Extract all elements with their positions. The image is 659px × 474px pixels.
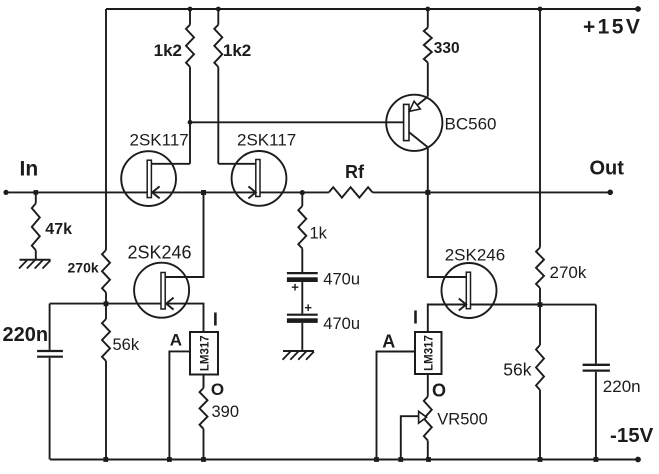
label 270k right [550,263,587,282]
wire -15V bottom rail [50,459,638,461]
node U2 adjust rail [374,457,379,462]
wire VR500 wiper [401,411,427,459]
wire 220n right top link [540,304,596,306]
node Q1 drain-base junction [188,120,193,125]
svg-text:390: 390 [212,403,240,421]
svg-text:47k: 47k [45,221,72,238]
label 1k [310,225,328,243]
svg-text:A: A [170,331,182,350]
svg-text:2SK246: 2SK246 [445,245,506,264]
wire Q4 gate [106,303,161,305]
svg-text:330: 330 [434,40,460,57]
resistor 1k2 left [186,9,194,164]
transistor Q1 2SK117 left [121,151,176,206]
svg-text:1k2: 1k2 [223,41,251,60]
label 1k2 left [154,41,182,60]
label 330 [434,40,460,57]
svg-text:Out: Out [590,158,625,180]
wire Q4 drain [165,193,203,278]
label 56k left [113,336,140,354]
wire BC560 emitter up [427,63,429,97]
wire U1 output [203,375,205,389]
transistor Q4 2SK246 left [134,263,189,318]
svg-text:O: O [211,380,224,399]
svg-text:2SK246: 2SK246 [128,243,192,263]
wire Q1 drain [151,163,190,165]
wire BC560 base [190,121,404,123]
wire +15V top rail [106,8,638,10]
wire input signal [6,191,302,193]
capacitor 220n right [583,305,610,460]
label 2SK246 left [128,243,192,263]
wire right bias trunk vertical [539,9,541,460]
svg-text:BC560: BC560 [445,114,497,133]
label VR500 [437,410,487,428]
label BC560 [445,114,497,133]
svg-text:I: I [413,307,418,327]
wire Q2 drain [218,163,256,165]
node top rail end +15V [635,6,641,12]
capacitor 470u upper [287,273,318,282]
wire between 470u caps [301,282,303,314]
svg-text:+15V: +15V [583,16,642,39]
svg-text:LM317: LM317 [199,335,211,371]
wire left bias trunk vertical [105,9,107,460]
wire BC560 collector down [427,147,429,192]
node rail junction 330 [425,7,430,12]
resistor 47k [32,192,40,259]
svg-text:2SK117: 2SK117 [237,130,296,149]
svg-text:+: + [291,280,299,295]
svg-text:A: A [382,331,395,351]
svg-text:+: + [304,300,312,315]
node rail junction 1k2 right [216,7,221,12]
transistor Q3 BC560 [386,95,442,151]
wire Q5 drain [428,192,467,277]
label 390 [212,403,240,421]
node 220n right rail [594,457,599,462]
wire U2 adjust [377,352,416,460]
wire U2 output [427,374,429,397]
svg-text:220n: 220n [603,377,641,396]
node VR500 rail [426,457,431,462]
label Out [590,158,625,180]
node 56k left rail [103,457,108,462]
transistor Q5 2SK246 right [442,263,497,318]
resistor 1k2 right [214,9,222,164]
label -15V [610,424,654,447]
node VR500 wiper rail [398,457,403,462]
resistor 1k [298,193,306,273]
svg-text:1k: 1k [310,225,328,243]
wire 470u to ground [301,323,303,351]
label 220n right [603,377,641,396]
node rail junction right trunk [538,7,543,12]
wire output signal [373,191,611,193]
potentiometer VR500 [424,397,432,460]
label I pin right [413,307,418,327]
node output junction [425,190,430,195]
label O pin left [211,380,224,399]
label 270k left [68,260,99,276]
node U1 adjust rail [167,457,172,462]
label 470u lower [323,315,360,333]
resistor 270k right [536,248,544,289]
label Rf [345,162,365,182]
wire Rf left lead [302,191,329,193]
label 56k right [503,360,531,380]
label + 470u upper [291,280,299,295]
resistor 330 [424,9,432,63]
node Out terminal [607,190,613,196]
label A pin right [382,331,395,351]
svg-text:LM317: LM317 [423,335,435,371]
svg-text:270k: 270k [550,263,587,282]
ground under 47k [19,260,51,269]
label 2SK117 right [237,130,296,149]
svg-text:1k2: 1k2 [154,41,182,60]
svg-text:220n: 220n [3,324,49,346]
node In terminal [3,190,8,195]
label 2SK117 left [130,130,189,149]
label O pin right [432,381,446,401]
label 220n left [3,324,49,346]
svg-text:56k: 56k [503,360,531,380]
svg-text:I: I [213,309,218,329]
label In [20,158,39,181]
resistor 390 [200,375,208,460]
wire Q5 source [428,305,467,333]
op-amp U2 LM317 right [415,332,442,374]
wire 220n left top link [50,303,106,305]
label 470u upper [323,271,360,289]
label + 470u lower [304,300,312,315]
node 56k right rail [538,457,543,462]
svg-text:470u: 470u [323,271,360,289]
node bottom rail end -15V [635,457,641,463]
wire Q4 source [165,304,203,332]
wire Q5 gate [470,304,540,306]
capacitor 220n left [37,304,63,460]
node 47k tap junction [34,190,39,195]
svg-text:In: In [20,158,39,181]
node source junction A [201,190,206,195]
resistor 270k left [102,250,110,293]
svg-text:-15V: -15V [610,424,654,447]
ground under 470u [283,351,315,360]
wire U1 adjust [169,351,190,459]
resistor 56k left [102,319,110,361]
svg-text:VR500: VR500 [437,410,487,428]
svg-text:2SK117: 2SK117 [130,130,189,149]
svg-text:270k: 270k [68,260,99,276]
op-amp U1 LM317 left [190,332,218,375]
resistor Rf [329,187,373,197]
label 1k2 right [223,41,251,60]
capacitor 470u lower [287,315,318,323]
node bias junction right [538,302,543,307]
node bias junction left [104,301,109,306]
label I pin left [213,309,218,329]
svg-text:O: O [432,381,446,401]
node feedback junction [300,190,305,195]
svg-text:56k: 56k [113,336,140,354]
label 47k [45,221,72,238]
label +15V [583,16,642,39]
svg-text:470u: 470u [323,315,360,333]
svg-text:Rf: Rf [345,162,365,182]
label A pin left [170,331,182,350]
node rail junction 1k2 left [188,7,193,12]
label 2SK246 right [445,245,506,264]
node 390 rail [201,457,206,462]
resistor 56k right [536,345,544,390]
transistor Q2 2SK117 right [232,151,287,206]
